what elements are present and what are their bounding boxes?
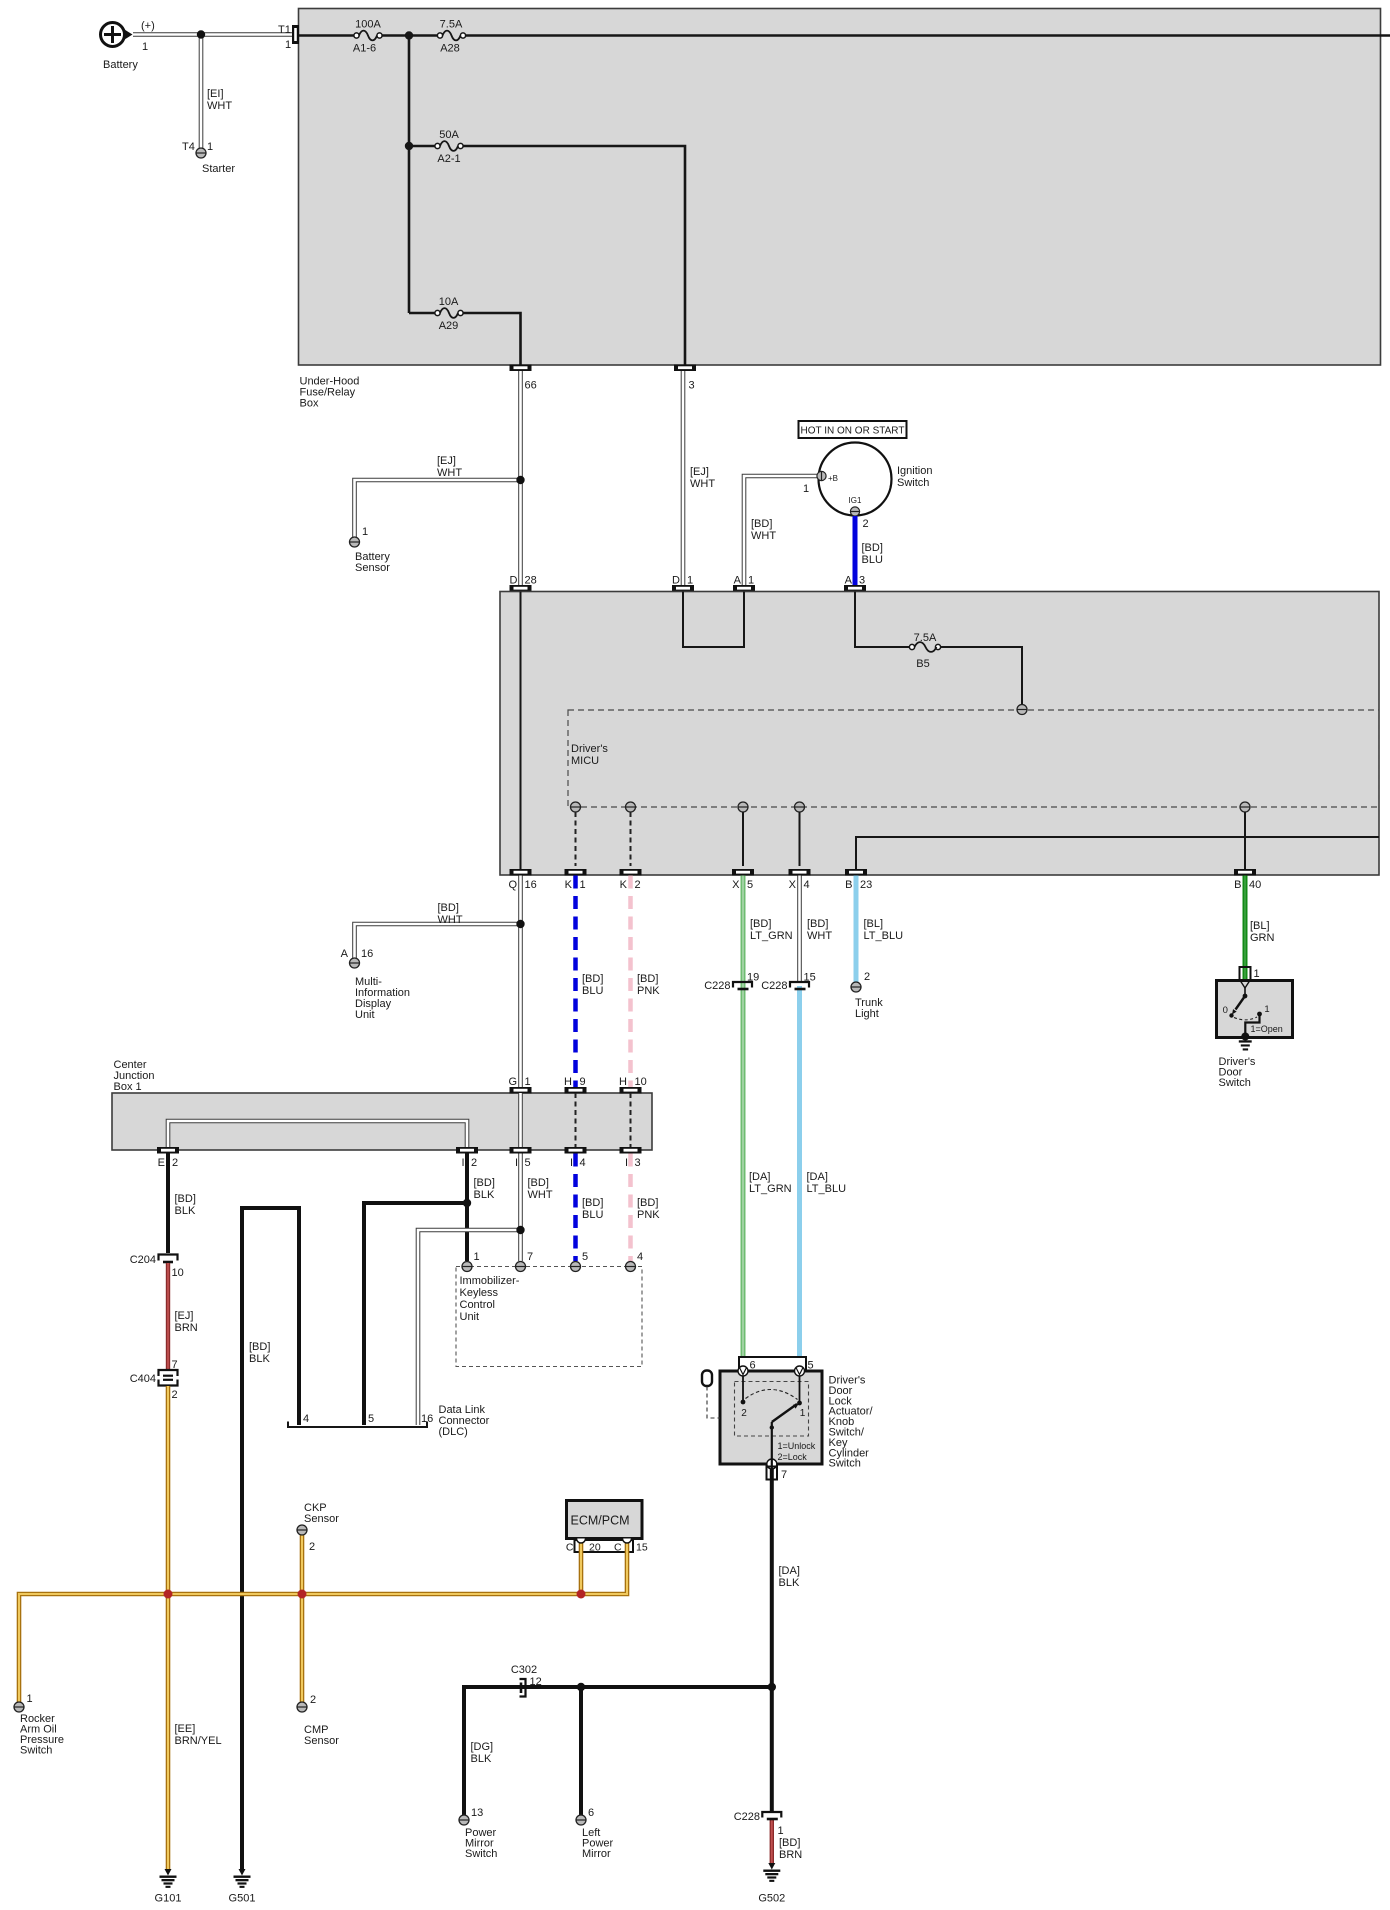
driver's door lock actuator box xyxy=(720,1371,873,1470)
svg-text:1: 1 xyxy=(142,41,148,53)
svg-text:X: X xyxy=(732,879,740,891)
connector K2 xyxy=(620,869,642,891)
svg-text:G502: G502 xyxy=(758,1893,785,1905)
junction I5/DLC16 xyxy=(516,1226,524,1234)
connector B23 xyxy=(845,869,872,891)
svg-text:15: 15 xyxy=(636,1542,648,1554)
door switch pivot xyxy=(1243,994,1248,999)
svg-text:0: 0 xyxy=(1223,1005,1228,1016)
svg-text:A2-1: A2-1 xyxy=(437,153,460,165)
wire MICU to X5 xyxy=(742,812,744,866)
connector C204 pin 10 xyxy=(130,1254,184,1279)
svg-text:1: 1 xyxy=(778,1825,784,1837)
svg-text:G501: G501 xyxy=(229,1893,256,1905)
svg-text:[BD]: [BD] xyxy=(807,918,828,930)
battery sensor terminal 1 xyxy=(350,526,391,574)
svg-text:WHT: WHT xyxy=(807,930,832,942)
svg-text:HOT IN ON OR START: HOT IN ON OR START xyxy=(801,426,905,437)
svg-text:2: 2 xyxy=(309,1541,315,1553)
Under-Hood Fuse/Relay Box xyxy=(299,9,1381,410)
svg-text:LT_GRN: LT_GRN xyxy=(750,930,793,942)
orange wire CKP to CMP across bus xyxy=(300,1535,305,1702)
svg-text:[DA]: [DA] xyxy=(749,1171,770,1183)
svg-text:I: I xyxy=(625,1157,628,1169)
svg-text:Switch: Switch xyxy=(20,1745,52,1757)
svg-text:LT_GRN: LT_GRN xyxy=(749,1183,792,1195)
svg-text:[BD]: [BD] xyxy=(750,918,771,930)
wire door lock actuator pin7 to C228 [DA] BLK xyxy=(772,1466,800,1812)
svg-text:3: 3 xyxy=(635,1157,641,1169)
svg-text:1: 1 xyxy=(525,1076,531,1088)
ground G101 xyxy=(155,1869,182,1905)
HOT IN ON OR START box xyxy=(799,421,907,438)
door switch contact 0 xyxy=(1223,1005,1234,1018)
svg-text:Switch: Switch xyxy=(829,1458,861,1470)
CMP sensor terminal 2 xyxy=(297,1694,339,1747)
door switch contact 1 xyxy=(1257,1004,1270,1016)
svg-text:D: D xyxy=(672,575,680,587)
dashed wire MICU to K2 xyxy=(630,812,632,866)
wire D28 to Q16 inside box xyxy=(520,592,522,870)
door switch wire contact1 to ground xyxy=(1245,1014,1259,1035)
svg-text:13: 13 xyxy=(471,1807,483,1819)
svg-text:19: 19 xyxy=(747,972,759,984)
svg-text:I: I xyxy=(570,1157,573,1169)
svg-text:[BL]: [BL] xyxy=(864,918,884,930)
svg-text:1: 1 xyxy=(362,526,368,538)
svg-text:Switch: Switch xyxy=(465,1848,497,1860)
connector I4 xyxy=(565,1147,587,1169)
svg-text:[BD]: [BD] xyxy=(249,1341,270,1353)
svg-text:6: 6 xyxy=(588,1807,594,1819)
svg-text:[BD]: [BD] xyxy=(438,902,459,914)
connector D28 xyxy=(510,575,537,592)
wire I5 to immobilizer pin 7 (WHT) xyxy=(521,1154,553,1262)
fuse 10A A29 xyxy=(435,296,463,332)
svg-text:4: 4 xyxy=(804,879,810,891)
svg-text:Unit: Unit xyxy=(460,1311,480,1323)
svg-text:2: 2 xyxy=(172,1157,178,1169)
actuator pin 6 bump xyxy=(738,1366,748,1376)
orange wire ECM C20 to bus xyxy=(579,1542,584,1594)
svg-text:2: 2 xyxy=(863,518,869,530)
svg-text:[EI]: [EI] xyxy=(207,88,224,100)
svg-text:100A: 100A xyxy=(355,19,381,31)
ground G502 xyxy=(758,1863,785,1905)
wire 3 to D1 [EJ] WHT xyxy=(683,371,715,585)
wire C228 to G502 [BD] BRN xyxy=(772,1820,802,1864)
actuator inner dashed box xyxy=(735,1382,809,1437)
svg-text:T4: T4 xyxy=(182,141,195,153)
svg-text:16: 16 xyxy=(361,948,373,960)
connector D1 xyxy=(672,575,694,592)
MICU terminal B40 xyxy=(1240,802,1250,812)
svg-text:B5: B5 xyxy=(916,658,929,670)
actuator pin 5 bump xyxy=(795,1366,805,1376)
actuator lever stem to pin 7 xyxy=(770,1422,774,1464)
fuse 100A A1-6 xyxy=(353,19,382,55)
svg-text:H: H xyxy=(619,1076,627,1088)
wire battery to T1 (WHT) xyxy=(133,32,292,37)
svg-text:B: B xyxy=(1234,879,1241,891)
MICU terminal (B5 feed) xyxy=(1017,705,1027,715)
svg-text:1: 1 xyxy=(803,483,809,495)
svg-text:I: I xyxy=(515,1157,518,1169)
wire IG1 to A3 [BD] BLU xyxy=(855,516,883,585)
connector C302 pin 12 xyxy=(520,1679,526,1697)
label [DA] LT_GRN xyxy=(749,1171,792,1195)
connector C228 pin 15 xyxy=(761,972,816,993)
connector A3 xyxy=(844,575,866,592)
junction orange C404 wire xyxy=(164,1590,173,1599)
wire power mirror bus (DG BLK) xyxy=(464,1687,772,1815)
svg-text:I: I xyxy=(461,1157,464,1169)
ECM/PCM box xyxy=(567,1501,643,1539)
junction xyxy=(405,142,413,150)
svg-text:28: 28 xyxy=(525,575,537,587)
ignition terminal 2 IG1 xyxy=(849,496,869,530)
data link connector (DLC) xyxy=(288,1404,490,1438)
svg-text:Q: Q xyxy=(508,879,517,891)
door switch ground xyxy=(1239,1040,1252,1050)
wire 66 to D28 (WHT) xyxy=(518,371,523,585)
svg-text:BRN: BRN xyxy=(779,1849,802,1861)
svg-text:(+): (+) xyxy=(141,20,155,32)
wire MICU to B40 xyxy=(1244,812,1246,869)
svg-text:BLK: BLK xyxy=(249,1353,270,1365)
svg-text:PNK: PNK xyxy=(637,985,660,997)
svg-text:LT_BLU: LT_BLU xyxy=(864,930,904,942)
connector C228 pin 19 xyxy=(704,972,759,993)
svg-text:Control: Control xyxy=(460,1299,495,1311)
connector I2 xyxy=(456,1147,478,1169)
svg-text:A29: A29 xyxy=(439,320,459,332)
junction orange CKP wire xyxy=(298,1590,307,1599)
wire C228 to door lock actuator [DA] LT_BLU xyxy=(800,986,847,1371)
svg-text:C228: C228 xyxy=(734,1811,760,1823)
svg-text:12: 12 xyxy=(530,1676,542,1688)
junction Q16/display branch xyxy=(516,920,524,928)
svg-text:7: 7 xyxy=(172,1359,178,1371)
svg-text:BLK: BLK xyxy=(175,1205,196,1217)
svg-text:1: 1 xyxy=(1254,968,1260,980)
svg-text:1: 1 xyxy=(27,1693,33,1705)
ground G501 xyxy=(229,1869,256,1905)
svg-text:WHT: WHT xyxy=(438,914,463,926)
svg-text:C228: C228 xyxy=(704,980,730,992)
svg-text:7: 7 xyxy=(527,1251,533,1263)
vertical branch wire xyxy=(408,36,411,314)
svg-text:B: B xyxy=(845,879,852,891)
svg-text:10A: 10A xyxy=(439,296,459,308)
svg-text:BLU: BLU xyxy=(582,985,603,997)
wire junction to DLC pin 5 xyxy=(364,1203,467,1425)
svg-text:[BL]: [BL] xyxy=(1250,920,1270,932)
svg-text:15: 15 xyxy=(804,972,816,984)
actuator switch lever with arrow xyxy=(772,1404,799,1423)
actuator contact 1 wire xyxy=(797,1376,806,1419)
svg-text:A: A xyxy=(734,575,742,587)
svg-text:IG1: IG1 xyxy=(849,496,862,505)
svg-text:2: 2 xyxy=(310,1694,316,1706)
svg-text:BLK: BLK xyxy=(474,1189,495,1201)
ignition switch xyxy=(819,443,933,516)
svg-text:3: 3 xyxy=(859,575,865,587)
wire junction to DLC pin 16 (WHT) xyxy=(418,1230,521,1425)
ignition terminal 1 +B xyxy=(803,471,838,495)
left power mirror terminal 6 xyxy=(576,1807,614,1860)
MICU terminal X4 xyxy=(795,802,805,812)
junction I2/DLC xyxy=(463,1199,471,1207)
svg-text:Light: Light xyxy=(855,1008,879,1020)
svg-text:[EJ]: [EJ] xyxy=(175,1310,194,1322)
svg-text:9: 9 xyxy=(580,1076,586,1088)
wire B23 to trunk light [BL] LT_BLU xyxy=(856,876,903,983)
actuator contact 2 wire xyxy=(741,1376,748,1419)
wire I3 to immobilizer pin 4 [BD] PNK dashed xyxy=(631,1154,661,1262)
actuator pin 7 bump xyxy=(767,1459,777,1469)
svg-text:[BD]: [BD] xyxy=(582,973,603,985)
svg-text:Sensor: Sensor xyxy=(355,562,390,574)
svg-text:WHT: WHT xyxy=(207,100,232,112)
svg-text:Starter: Starter xyxy=(202,163,235,175)
svg-text:3: 3 xyxy=(689,380,695,392)
bus to right edge xyxy=(466,34,1390,37)
connector I5 xyxy=(510,1147,532,1169)
svg-text:[EJ]: [EJ] xyxy=(690,466,709,478)
wire E2 to C204 [BD] BLK xyxy=(168,1154,196,1254)
wire G1 to I5 inside junction box (WHT) xyxy=(518,1093,523,1147)
connector X5 xyxy=(732,869,754,891)
svg-text:Sensor: Sensor xyxy=(304,1513,339,1525)
svg-text:Ignition: Ignition xyxy=(897,465,932,477)
wire to left power mirror xyxy=(579,1687,583,1815)
svg-text:[BD]: [BD] xyxy=(862,542,883,554)
svg-text:5: 5 xyxy=(525,1157,531,1169)
svg-text:BLU: BLU xyxy=(582,1209,603,1221)
svg-text:40: 40 xyxy=(1249,879,1261,891)
svg-text:[BD]: [BD] xyxy=(779,1837,800,1849)
svg-text:1: 1 xyxy=(474,1251,480,1263)
Under-Dash Fuse/Relay Box xyxy=(500,592,1379,876)
key cylinder symbol xyxy=(702,1371,720,1419)
wire B5 to MICU terminal xyxy=(941,647,1023,704)
svg-text:[BD]: [BD] xyxy=(175,1193,196,1205)
immobilizer terminal 1 xyxy=(462,1251,480,1272)
svg-text:2: 2 xyxy=(635,879,641,891)
MICU terminal K1 xyxy=(571,802,581,812)
actuator pin 7 connector xyxy=(767,1467,788,1482)
svg-text:D: D xyxy=(510,575,518,587)
wire A3 to fuse B5 xyxy=(855,592,909,648)
dashed wire MICU to K1 xyxy=(575,812,577,866)
svg-text:LT_BLU: LT_BLU xyxy=(807,1183,847,1195)
svg-text:A: A xyxy=(341,948,349,960)
wire B23 to box right edge xyxy=(856,837,1379,869)
svg-text:T1: T1 xyxy=(278,24,291,36)
trunk light terminal 2 xyxy=(851,971,883,1020)
connector H10 xyxy=(619,1076,647,1094)
svg-text:BLU: BLU xyxy=(862,554,883,566)
orange bus wire rocker-arm to ECM C15 xyxy=(19,1542,627,1702)
svg-text:7.5A: 7.5A xyxy=(440,19,463,31)
wire 10A to connector 66 xyxy=(463,313,521,365)
door switch stem xyxy=(1244,988,1246,995)
door switch dashed arc xyxy=(1234,1017,1257,1020)
svg-text:[DG]: [DG] xyxy=(471,1741,494,1753)
wire MICU to X4 xyxy=(799,812,801,866)
connector T1 xyxy=(278,24,299,51)
svg-text:2=Lock: 2=Lock xyxy=(778,1452,808,1462)
svg-text:50A: 50A xyxy=(439,129,459,141)
fuse 50A A2-1 xyxy=(435,129,463,165)
MICU terminal K2 xyxy=(626,802,636,812)
door switch connector 1 xyxy=(1240,967,1260,980)
svg-text:K: K xyxy=(620,879,628,891)
svg-text:23: 23 xyxy=(860,879,872,891)
junction battery/starter xyxy=(197,30,205,38)
svg-text:66: 66 xyxy=(525,380,537,392)
svg-text:4: 4 xyxy=(580,1157,586,1169)
connector C404 pins 7/2 xyxy=(130,1359,178,1401)
CKP sensor terminal 2 xyxy=(297,1502,339,1553)
svg-text:PNK: PNK xyxy=(637,1209,660,1221)
svg-text:A28: A28 xyxy=(440,43,460,55)
svg-text:1: 1 xyxy=(207,141,213,153)
junction 66/battery-sensor xyxy=(516,476,524,484)
wire I2 down [BD] BLK xyxy=(467,1154,495,1262)
svg-text:2: 2 xyxy=(741,1408,747,1419)
immobilizer terminal 4 xyxy=(626,1251,644,1272)
C302 labels xyxy=(511,1664,542,1688)
svg-text:Switch: Switch xyxy=(1219,1077,1251,1089)
svg-text:1: 1 xyxy=(285,39,291,51)
wire H9 to I4 inside junction box dashed xyxy=(575,1093,577,1147)
connector B40 xyxy=(1234,869,1261,891)
svg-text:X: X xyxy=(789,879,797,891)
door switch ground dot xyxy=(1241,1033,1249,1041)
svg-text:2: 2 xyxy=(864,971,870,983)
immobilizer terminal 5 xyxy=(571,1251,589,1272)
connector 66 xyxy=(510,365,537,392)
svg-text:WHT: WHT xyxy=(528,1189,553,1201)
svg-text:BLK: BLK xyxy=(471,1753,492,1765)
svg-text:1: 1 xyxy=(580,879,586,891)
actuator 1=Unlock / 2=Lock labels xyxy=(778,1441,816,1462)
wire E2 to I2 inside junction box xyxy=(168,1121,467,1147)
svg-text:WHT: WHT xyxy=(690,478,715,490)
wire xyxy=(382,34,437,37)
svg-text:[BD]: [BD] xyxy=(528,1177,549,1189)
junction DA BLK / mirror bus xyxy=(768,1683,776,1691)
svg-text:2: 2 xyxy=(172,1389,178,1401)
door switch internal contact funnel xyxy=(1241,982,1249,989)
svg-text:1: 1 xyxy=(748,575,754,587)
wire B40 to door switch [BL] GRN xyxy=(1245,876,1275,981)
svg-text:Box: Box xyxy=(300,398,319,410)
battery xyxy=(101,20,155,71)
svg-text:[EJ]: [EJ] xyxy=(437,455,456,467)
svg-text:[BD]: [BD] xyxy=(582,1197,603,1209)
svg-text:10: 10 xyxy=(172,1267,184,1279)
wire C404 to G101 [EE] BRN/YEL xyxy=(168,1386,222,1870)
svg-text:[BD]: [BD] xyxy=(637,973,658,985)
connector H9 xyxy=(564,1076,586,1094)
svg-text:Switch: Switch xyxy=(897,477,929,489)
wire I4 to immobilizer pin 5 [BD] BLU dashed xyxy=(576,1154,604,1262)
connector K1 xyxy=(565,869,587,891)
MICU terminal X5 xyxy=(738,802,748,812)
immobilizer-keyless control unit dashed box xyxy=(456,1267,642,1367)
svg-text:1=Open: 1=Open xyxy=(1251,1024,1283,1034)
svg-text:C: C xyxy=(614,1542,622,1554)
svg-text:C: C xyxy=(566,1542,574,1554)
wire to 10A fuse xyxy=(409,312,437,315)
svg-text:[DA]: [DA] xyxy=(779,1565,800,1577)
svg-text:Keyless: Keyless xyxy=(460,1287,499,1299)
wire to 50A fuse xyxy=(409,145,437,148)
wire X4 to C228 [BD] WHT xyxy=(800,876,833,984)
svg-text:BLK: BLK xyxy=(779,1577,800,1589)
svg-text:(DLC): (DLC) xyxy=(439,1426,468,1438)
svg-text:[BD]: [BD] xyxy=(474,1177,495,1189)
svg-text:10: 10 xyxy=(635,1076,647,1088)
svg-text:MICU: MICU xyxy=(571,755,599,767)
connector E2 xyxy=(157,1147,179,1169)
connector G1 xyxy=(508,1076,531,1094)
driver's door switch box xyxy=(1217,981,1293,1090)
svg-text:Mirror: Mirror xyxy=(582,1848,611,1860)
door lock actuator connector 6/5 xyxy=(739,1357,814,1372)
fuse 7.5A B5 xyxy=(909,632,940,670)
svg-text:Box 1: Box 1 xyxy=(114,1081,142,1093)
main bus wire inside under-hood box xyxy=(299,34,356,37)
svg-text:WHT: WHT xyxy=(437,467,462,479)
multi-information display unit terminal A16 xyxy=(341,948,410,1021)
rocker arm oil pressure switch terminal 1 xyxy=(14,1693,64,1757)
wire [BD] WHT to multi-information display unit xyxy=(355,902,521,958)
svg-text:[EE]: [EE] xyxy=(175,1723,196,1735)
wire X5 to C228 [BD] LT_GRN xyxy=(743,876,793,1372)
svg-text:[BD]: [BD] xyxy=(751,518,772,530)
svg-text:7.5A: 7.5A xyxy=(914,632,937,644)
svg-text:5: 5 xyxy=(747,879,753,891)
wire D1 to A1 jumper inside box xyxy=(683,592,744,648)
door switch lever xyxy=(1232,996,1245,1015)
svg-text:BRN: BRN xyxy=(175,1322,198,1334)
svg-text:G101: G101 xyxy=(155,1893,182,1905)
wire C204 to C404 [EJ] BRN xyxy=(168,1263,198,1369)
ECM/PCM pin bump C15 xyxy=(623,1539,632,1544)
wire [EI] WHT battery junction to starter xyxy=(201,35,232,149)
label [DG] BLK xyxy=(471,1741,494,1765)
svg-text:+B: +B xyxy=(828,474,838,483)
svg-text:2: 2 xyxy=(471,1157,477,1169)
wire K2 to H10 [BD] PNK dashed xyxy=(631,876,661,1088)
svg-text:4: 4 xyxy=(303,1413,309,1425)
svg-text:1: 1 xyxy=(1264,1004,1269,1015)
svg-text:5: 5 xyxy=(582,1251,588,1263)
svg-text:BRN/YEL: BRN/YEL xyxy=(175,1735,222,1747)
fuse 7.5A A28 xyxy=(437,19,465,55)
svg-text:K: K xyxy=(565,879,573,891)
svg-text:1: 1 xyxy=(800,1408,806,1419)
svg-text:Unit: Unit xyxy=(355,1009,375,1021)
connector I3 xyxy=(620,1147,642,1169)
svg-text:Driver's: Driver's xyxy=(571,743,608,755)
svg-text:7: 7 xyxy=(781,1469,787,1481)
junction left power mirror xyxy=(577,1683,585,1691)
